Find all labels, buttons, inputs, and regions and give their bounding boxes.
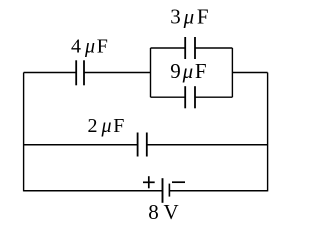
wire: box top edge right of C2	[195, 47, 232, 49]
node B: parallel box right edge wire	[231, 48, 233, 97]
wire: box top edge left of C2	[151, 47, 186, 49]
polarity minus sign	[172, 181, 185, 183]
wire: bottom rail left of battery	[24, 190, 163, 192]
wire: bottom rail right of battery	[169, 190, 267, 192]
wire: right vertical rail	[267, 73, 269, 192]
capacitor C1 4uF plates	[76, 60, 84, 85]
wire: box bottom edge right of C3	[195, 96, 232, 98]
wire: top rail, C1 right plate to parallel box left edge	[84, 72, 151, 74]
wire: left vertical rail	[23, 73, 25, 192]
capacitor C4 2uF plates	[138, 133, 147, 157]
polarity plus sign	[143, 176, 155, 188]
svg-text:2 μ F: 2 μ F	[88, 115, 125, 137]
wire: middle rail left of C4	[24, 144, 138, 146]
wire: middle rail right of C4	[147, 144, 268, 146]
svg-text:8 V: 8 V	[148, 200, 179, 224]
capacitor C3 9uF plates	[185, 86, 195, 108]
wire: box right edge to top-right corner	[232, 72, 267, 74]
wire: box bottom edge left of C3	[151, 96, 186, 98]
svg-text:9 μ F: 9 μ F	[170, 59, 206, 83]
node A: parallel box left edge wire	[150, 48, 152, 97]
svg-text:4 μ F: 4 μ F	[71, 36, 108, 58]
capacitor C2 3uF plates	[185, 37, 195, 59]
svg-text:3 μ F: 3 μ F	[170, 5, 209, 29]
battery V1 negative short plate	[168, 184, 170, 197]
battery V1 positive long plate	[162, 178, 164, 203]
wire: top rail, left corner to C1 left plate	[24, 72, 77, 74]
